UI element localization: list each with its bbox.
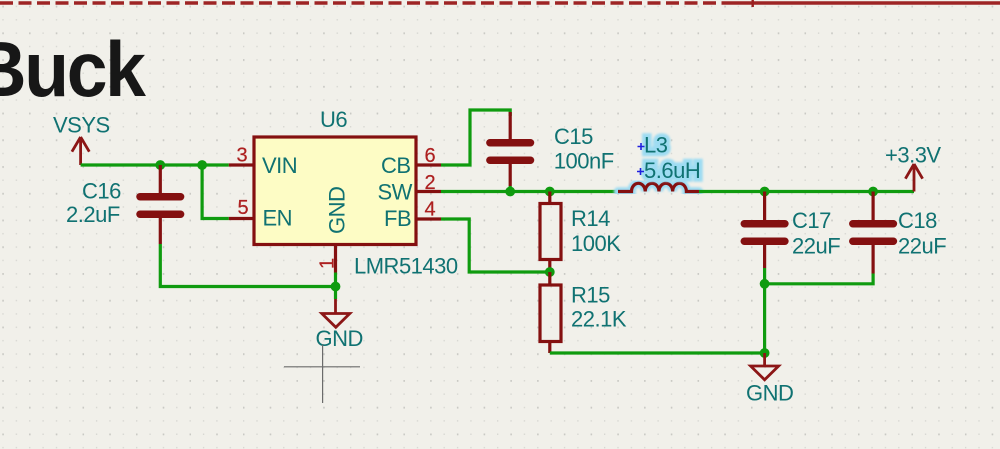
pin 2 SW stub xyxy=(416,190,441,193)
svg-text:100K: 100K xyxy=(571,231,621,256)
svg-text:C17: C17 xyxy=(792,208,831,233)
svg-text:SW: SW xyxy=(378,180,413,205)
junction R14/SW xyxy=(545,187,555,197)
wire VSYS to VIN xyxy=(81,163,229,166)
crosshair origin marker xyxy=(284,345,360,404)
svg-text:GND: GND xyxy=(325,187,350,234)
svg-text:5: 5 xyxy=(238,197,249,219)
resistor R14 xyxy=(540,192,561,273)
junction C17/C18 gnd node xyxy=(760,279,770,289)
power flag VSYS xyxy=(72,137,89,165)
capacitor C17 xyxy=(744,192,785,269)
ground symbol under U6 xyxy=(322,299,350,327)
svg-text:4: 4 xyxy=(425,199,436,221)
anchor cross L3 xyxy=(638,143,645,150)
wire C15 bottom to SW wire xyxy=(509,186,512,192)
pin 1 GND stub xyxy=(334,245,337,273)
resistor R15 xyxy=(540,272,561,353)
svg-text:Buck: Buck xyxy=(0,26,147,114)
svg-text:R15: R15 xyxy=(571,283,610,308)
wire C18 bottom to C17 node xyxy=(765,274,874,284)
svg-text:LMR51430: LMR51430 xyxy=(354,254,458,279)
sheet border dashed segment xyxy=(0,1,733,4)
junction C18/out xyxy=(868,187,878,197)
anchor cross 5.6uH xyxy=(637,168,644,175)
svg-text:1: 1 xyxy=(317,258,339,269)
svg-text:FB: FB xyxy=(384,206,411,231)
capacitor C18 xyxy=(853,192,894,274)
svg-text:C18: C18 xyxy=(898,208,937,233)
svg-text:GND: GND xyxy=(746,381,793,406)
junction at C16 top xyxy=(155,160,165,170)
svg-text:R14: R14 xyxy=(571,206,610,231)
junction C15/SW xyxy=(505,187,515,197)
junction pin1/C16 xyxy=(331,282,341,292)
sheet border solid segment xyxy=(733,1,1000,4)
inductor L3 selection halo xyxy=(618,183,699,191)
wire R15 bottom to GND junction xyxy=(550,351,765,354)
svg-text:6: 6 xyxy=(425,145,436,167)
pin 4 FB stub xyxy=(416,217,441,220)
svg-text:U6: U6 xyxy=(320,107,347,132)
svg-text:2: 2 xyxy=(425,172,436,194)
power flag +3.3V xyxy=(905,164,922,192)
svg-text:22uF: 22uF xyxy=(898,234,946,259)
ground symbol right xyxy=(751,353,779,380)
pin 3 VIN stub xyxy=(229,163,254,166)
wire EN branch vertical xyxy=(202,165,229,219)
sheet border tick xyxy=(752,0,754,7)
svg-text:100nF: 100nF xyxy=(554,149,614,174)
svg-text:VIN: VIN xyxy=(262,153,297,178)
svg-text:EN: EN xyxy=(263,206,293,231)
svg-text:L3: L3 xyxy=(644,133,668,158)
wire C17 bottom node xyxy=(763,268,766,353)
svg-text:+3.3V: +3.3V xyxy=(885,143,941,168)
junction FB/R14/R15 xyxy=(545,267,555,277)
wire pin1 to junction xyxy=(334,273,337,300)
wire L3 to output xyxy=(699,190,914,193)
pin 5 EN stub xyxy=(229,217,254,220)
junction at EN branch xyxy=(197,160,207,170)
junction C17/out xyxy=(760,187,770,197)
wire SW to L3 xyxy=(441,190,618,193)
svg-text:22.1K: 22.1K xyxy=(571,307,627,332)
wire C16 bottom to GND junction xyxy=(160,244,335,287)
svg-text:CB: CB xyxy=(381,153,411,178)
svg-text:2.2uF: 2.2uF xyxy=(66,202,120,227)
svg-text:VSYS: VSYS xyxy=(53,113,110,138)
wire CB to C15 top xyxy=(441,110,510,165)
pin 6 CB stub xyxy=(416,163,441,166)
capacitor C15 xyxy=(490,112,531,186)
capacitor C16 xyxy=(140,165,181,244)
wire FB to divider xyxy=(441,219,550,272)
IC U6 body xyxy=(254,137,416,245)
inductor L3 xyxy=(618,183,699,191)
junction R15 wire / gnd xyxy=(760,348,770,358)
svg-text:22uF: 22uF xyxy=(792,234,840,259)
svg-text:5.6uH: 5.6uH xyxy=(644,158,700,183)
svg-text:3: 3 xyxy=(237,145,248,167)
svg-text:C15: C15 xyxy=(554,124,593,149)
svg-text:C16: C16 xyxy=(82,179,121,204)
